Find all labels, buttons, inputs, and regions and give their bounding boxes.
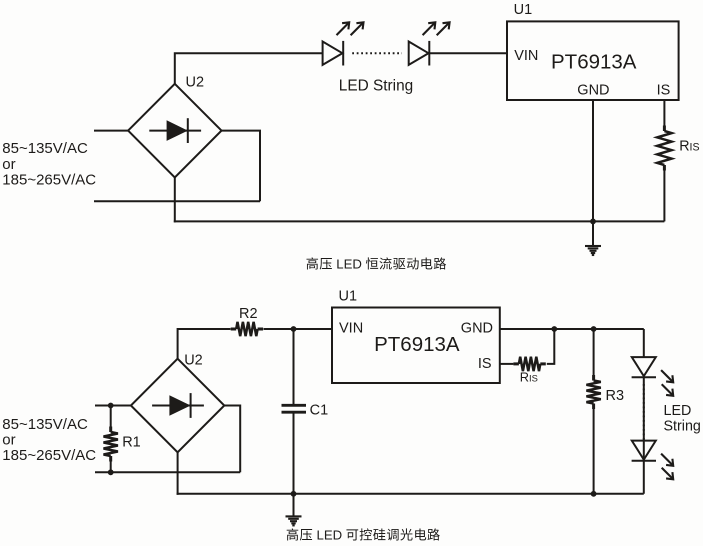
wire: RIS bottom to rail (top circuit)	[663, 165, 665, 221]
resistor R3 (bottom circuit)	[586, 375, 600, 409]
wire: bridge bottom corner drop (top circuit)	[174, 177, 176, 222]
caption: bottom circuit title	[287, 528, 440, 543]
wire: R3 top lead	[593, 329, 595, 375]
svg-text:PT6913A: PT6913A	[551, 51, 637, 74]
svg-text:LED: LED	[664, 403, 692, 419]
IC U1 PT6913A box (top circuit)	[507, 21, 679, 100]
svg-text:C1: C1	[310, 403, 329, 419]
bridge rectifier U2 (bottom circuit)	[131, 359, 224, 453]
svg-text:RIS: RIS	[520, 370, 538, 385]
LED D1 with emission arrows (top circuit)	[323, 22, 364, 65]
svg-text:GND: GND	[461, 321, 493, 337]
ground symbol (top circuit)	[585, 221, 601, 255]
node: AC upper / R1 (bottom circuit)	[108, 403, 114, 409]
svg-text:85~135V/AC: 85~135V/AC	[2, 416, 88, 433]
bridge rectifier U2 (top circuit)	[128, 84, 221, 178]
caption: top circuit title	[306, 257, 446, 272]
svg-text:or: or	[2, 432, 15, 449]
svg-text:R1: R1	[122, 435, 141, 451]
wire: VIN node down to C1	[293, 329, 295, 404]
svg-text:LED: LED	[317, 528, 343, 543]
capacitor C1 (bottom circuit)	[282, 405, 307, 412]
wire: bridge top corner riser to LED string (top circuit)	[175, 53, 323, 84]
svg-text:LED: LED	[336, 257, 362, 272]
junction: GND to bottom rail (top circuit)	[590, 219, 596, 225]
LED D1 with emission arrows (bottom circuit)	[632, 357, 674, 396]
wire: C1 bottom to rail	[293, 413, 295, 493]
LED D2 with emission arrows (top circuit)	[409, 22, 450, 65]
wire: RIS to GND net riser (bottom circuit)	[547, 329, 555, 364]
node: AC lower / R1 (bottom circuit)	[108, 469, 114, 475]
wire: bottom rail (top circuit)	[174, 220, 665, 222]
svg-text:PT6913A: PT6913A	[374, 333, 460, 356]
wire: bridge top corner riser to R2 (bottom circuit)	[178, 329, 231, 359]
wire: bottom rail (bottom circuit)	[177, 493, 644, 495]
resistor RIS (top circuit)	[657, 126, 671, 171]
svg-text:LED String: LED String	[339, 77, 413, 94]
svg-text:VIN: VIN	[514, 48, 538, 64]
IC U1 PT6913A box (bottom circuit)	[332, 308, 500, 384]
wire: U1 GND to LED string (bottom circuit)	[500, 328, 644, 330]
wire: bridge right corner to lower input (bottom circuit)	[224, 406, 240, 473]
svg-text:R3: R3	[606, 388, 625, 404]
wire: dotted LED-string continuation (bottom circuit)	[643, 384, 645, 440]
resistor R1 (bottom circuit)	[104, 427, 118, 462]
wire: U1 GND pin drop (top circuit)	[592, 100, 594, 221]
junction: R3 on GND net (bottom circuit)	[591, 326, 597, 332]
LED D2 with emission arrows (bottom circuit)	[632, 441, 674, 480]
svg-text:GND: GND	[577, 82, 609, 98]
wire: R1 top lead	[110, 406, 112, 433]
wire: AC input lower (top circuit)	[94, 200, 260, 202]
junction: C1 on bottom rail (bottom circuit)	[291, 491, 297, 497]
wire: U1 IS pin to RIS (top circuit)	[663, 100, 665, 131]
junction: RIS riser on GND net (bottom circuit)	[551, 326, 557, 332]
svg-text:185~265V/AC: 185~265V/AC	[2, 171, 96, 188]
wire: U1 IS pin to RIS (bottom circuit)	[500, 363, 514, 365]
wire: bridge bottom corner drop (bottom circuit)	[177, 452, 179, 495]
resistor RIS (bottom circuit)	[513, 357, 545, 371]
svg-text:85~135V/AC: 85~135V/AC	[2, 140, 88, 157]
svg-text:RIS: RIS	[679, 138, 699, 154]
svg-text:IS: IS	[657, 82, 671, 98]
svg-text:U2: U2	[184, 353, 203, 369]
junction: R3 on bottom rail (bottom circuit)	[591, 491, 597, 497]
wire: bridge right corner to lower input (top circuit)	[222, 131, 261, 202]
wire: dotted LED-string continuation (top circuit)	[352, 52, 402, 54]
junction: VIN node / C1 (bottom circuit)	[291, 326, 297, 332]
svg-text:String: String	[664, 419, 701, 435]
wire: drop to LED string anode (bottom circuit)	[643, 329, 645, 357]
wire: AC input upper (bottom circuit)	[95, 405, 131, 407]
wire: AC input upper (top circuit)	[94, 130, 128, 132]
ground symbol (bottom circuit)	[286, 494, 302, 526]
svg-text:R2: R2	[239, 306, 258, 322]
wire: R3 bottom lead	[593, 409, 595, 494]
wire: LED2 cathode to U1 VIN (top circuit)	[430, 52, 507, 54]
wire: R2 to U1 VIN (bottom circuit)	[264, 328, 333, 330]
svg-text:VIN: VIN	[339, 321, 363, 337]
svg-text:185~265V/AC: 185~265V/AC	[2, 447, 96, 464]
wire: AC input lower (bottom circuit)	[95, 471, 240, 473]
resistor R2 (bottom circuit)	[231, 322, 263, 336]
svg-text:or: or	[2, 156, 15, 173]
wire: R1 bottom lead	[110, 456, 112, 472]
svg-text:IS: IS	[478, 356, 492, 372]
svg-text:U2: U2	[186, 75, 205, 91]
wire: LED string cathode to rail (bottom circuit)	[643, 377, 645, 494]
svg-text:U1: U1	[339, 289, 358, 305]
svg-text:U1: U1	[514, 2, 533, 18]
